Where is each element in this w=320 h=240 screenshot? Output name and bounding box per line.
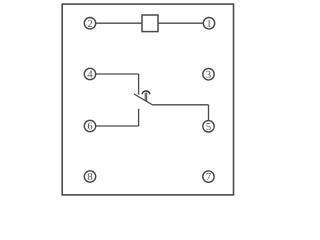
actuator arrow stem bbox=[145, 93, 147, 102]
wire: terminal 2 to box bbox=[96, 22, 142, 24]
svg-text:1: 1 bbox=[206, 19, 211, 30]
terminal 7 bbox=[203, 171, 214, 183]
svg-text:6: 6 bbox=[87, 122, 92, 133]
terminal 2 bbox=[84, 18, 95, 30]
svg-text:2: 2 bbox=[87, 19, 92, 30]
resistor box between terminals 2 and 1 bbox=[142, 15, 158, 32]
svg-text:5: 5 bbox=[206, 122, 211, 133]
terminal 3 bbox=[203, 69, 214, 81]
wire: box to terminal 1 bbox=[158, 22, 203, 24]
switch blade (movable contact) bbox=[134, 94, 152, 105]
svg-text:3: 3 bbox=[206, 70, 211, 81]
wire: switch output horizontal to right bbox=[152, 104, 209, 106]
svg-text:8: 8 bbox=[87, 172, 92, 183]
terminal 5 bbox=[203, 121, 214, 133]
terminal 4 bbox=[84, 68, 95, 80]
wire: terminal 4 horizontal bbox=[96, 73, 139, 75]
terminal 8 bbox=[84, 171, 95, 183]
svg-text:7: 7 bbox=[206, 172, 211, 183]
terminal 6 bbox=[84, 120, 95, 132]
wire: down from terminal 4 wire to switch pivot bbox=[138, 74, 140, 95]
switch body outline bbox=[62, 4, 233, 195]
wire: down to terminal 5 bbox=[208, 105, 210, 121]
actuator arrow head bbox=[142, 91, 150, 94]
svg-text:4: 4 bbox=[87, 70, 93, 81]
wire: terminal 6 horizontal bbox=[96, 125, 139, 127]
terminal 1 bbox=[203, 18, 214, 30]
wire: up from terminal 6 wire (fixed contact) bbox=[138, 109, 140, 126]
